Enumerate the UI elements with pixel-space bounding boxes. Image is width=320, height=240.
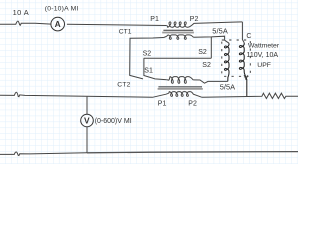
svg-text:5/5A: 5/5A <box>212 27 228 36</box>
svg-text:(0-600)V MI: (0-600)V MI <box>95 118 132 125</box>
svg-text:P2: P2 <box>188 101 197 108</box>
svg-text:CT1: CT1 <box>119 28 132 35</box>
svg-text:A: A <box>55 19 61 29</box>
svg-text:V: V <box>84 116 90 126</box>
svg-text:110V, 10A: 110V, 10A <box>247 52 279 59</box>
svg-text:Wattmeter: Wattmeter <box>248 43 280 50</box>
svg-text:(0-10)A MI: (0-10)A MI <box>45 5 79 12</box>
svg-text:S2: S2 <box>143 50 152 57</box>
svg-text:10 A: 10 A <box>13 8 30 17</box>
svg-text:V: V <box>244 75 249 82</box>
svg-text:C: C <box>246 33 251 40</box>
svg-text:P1: P1 <box>150 16 159 23</box>
svg-text:S2: S2 <box>198 49 207 56</box>
svg-text:5/5A: 5/5A <box>220 82 235 91</box>
svg-text:S1: S1 <box>144 68 153 75</box>
svg-text:S2: S2 <box>202 62 211 69</box>
svg-text:CT2: CT2 <box>117 82 130 89</box>
svg-text:P2: P2 <box>190 16 199 23</box>
svg-text:UPF: UPF <box>257 62 271 69</box>
svg-text:P1: P1 <box>158 101 167 108</box>
